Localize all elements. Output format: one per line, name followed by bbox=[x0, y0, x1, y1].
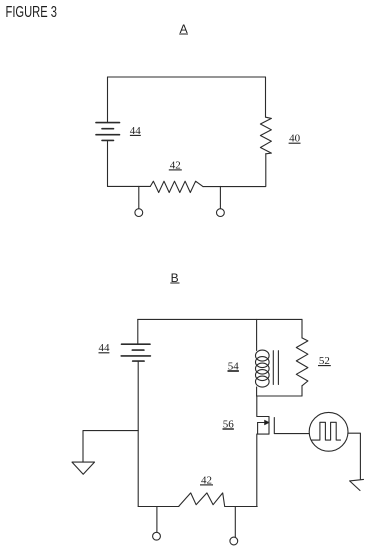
svg-text:FIGURE 3: FIGURE 3 bbox=[6, 4, 58, 21]
